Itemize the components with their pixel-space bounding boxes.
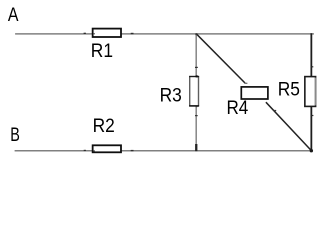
svg-text:R4: R4 [227, 98, 249, 119]
svg-text:B: B [10, 125, 20, 146]
wire bottom B rail [15, 150, 313, 152]
junction bottom-right (R4/R5 to B rail) [310, 149, 313, 152]
resistor R4 pin tick upper [244, 83, 247, 84]
resistor R5 pin tick top [312, 66, 314, 67]
wire diagonal upper (node to R4) [196, 34, 245, 83]
resistor R3 pin tick bottom [195, 115, 198, 116]
resistor R4 body [241, 87, 268, 99]
svg-text:A: A [8, 5, 19, 26]
resistor R1 pin tick left [84, 33, 86, 34]
wire top A rail [15, 33, 314, 35]
resistor R5 body [305, 77, 316, 107]
resistor R1 inner pin tick [94, 33, 95, 34]
wire middle vertical (node to B rail through R3) [195, 34, 197, 151]
junction middle-bottom (R3 to B rail) [195, 144, 197, 151]
wire diagonal lower (R4 to bottom-right corner) [266, 102, 311, 150]
resistor R1 pin tick right [131, 33, 134, 34]
svg-text:R2: R2 [93, 116, 115, 137]
resistor R2 pin tick left [84, 150, 86, 151]
resistor R5 pin tick bottom [312, 115, 314, 116]
resistor R3 body [190, 77, 199, 106]
resistor R2 pin tick right [131, 150, 134, 151]
resistor R2 body [93, 145, 121, 152]
resistor R1 body [93, 29, 121, 37]
svg-text:R1: R1 [91, 41, 113, 62]
node junction top (A rail / R3 / R4 branch) [195, 33, 197, 35]
resistor R2 inner pin tick [94, 150, 95, 151]
resistor R4 pin tick lower [273, 110, 276, 111]
svg-text:R5: R5 [278, 80, 300, 101]
resistor R3 bottom pin dot [196, 105, 198, 108]
resistor R3 pin tick top [195, 67, 198, 68]
resistor R3 top pin dot [196, 75, 198, 77]
wire right vertical (A rail to B rail through R5) [310, 33, 312, 150]
svg-text:R3: R3 [160, 85, 182, 106]
